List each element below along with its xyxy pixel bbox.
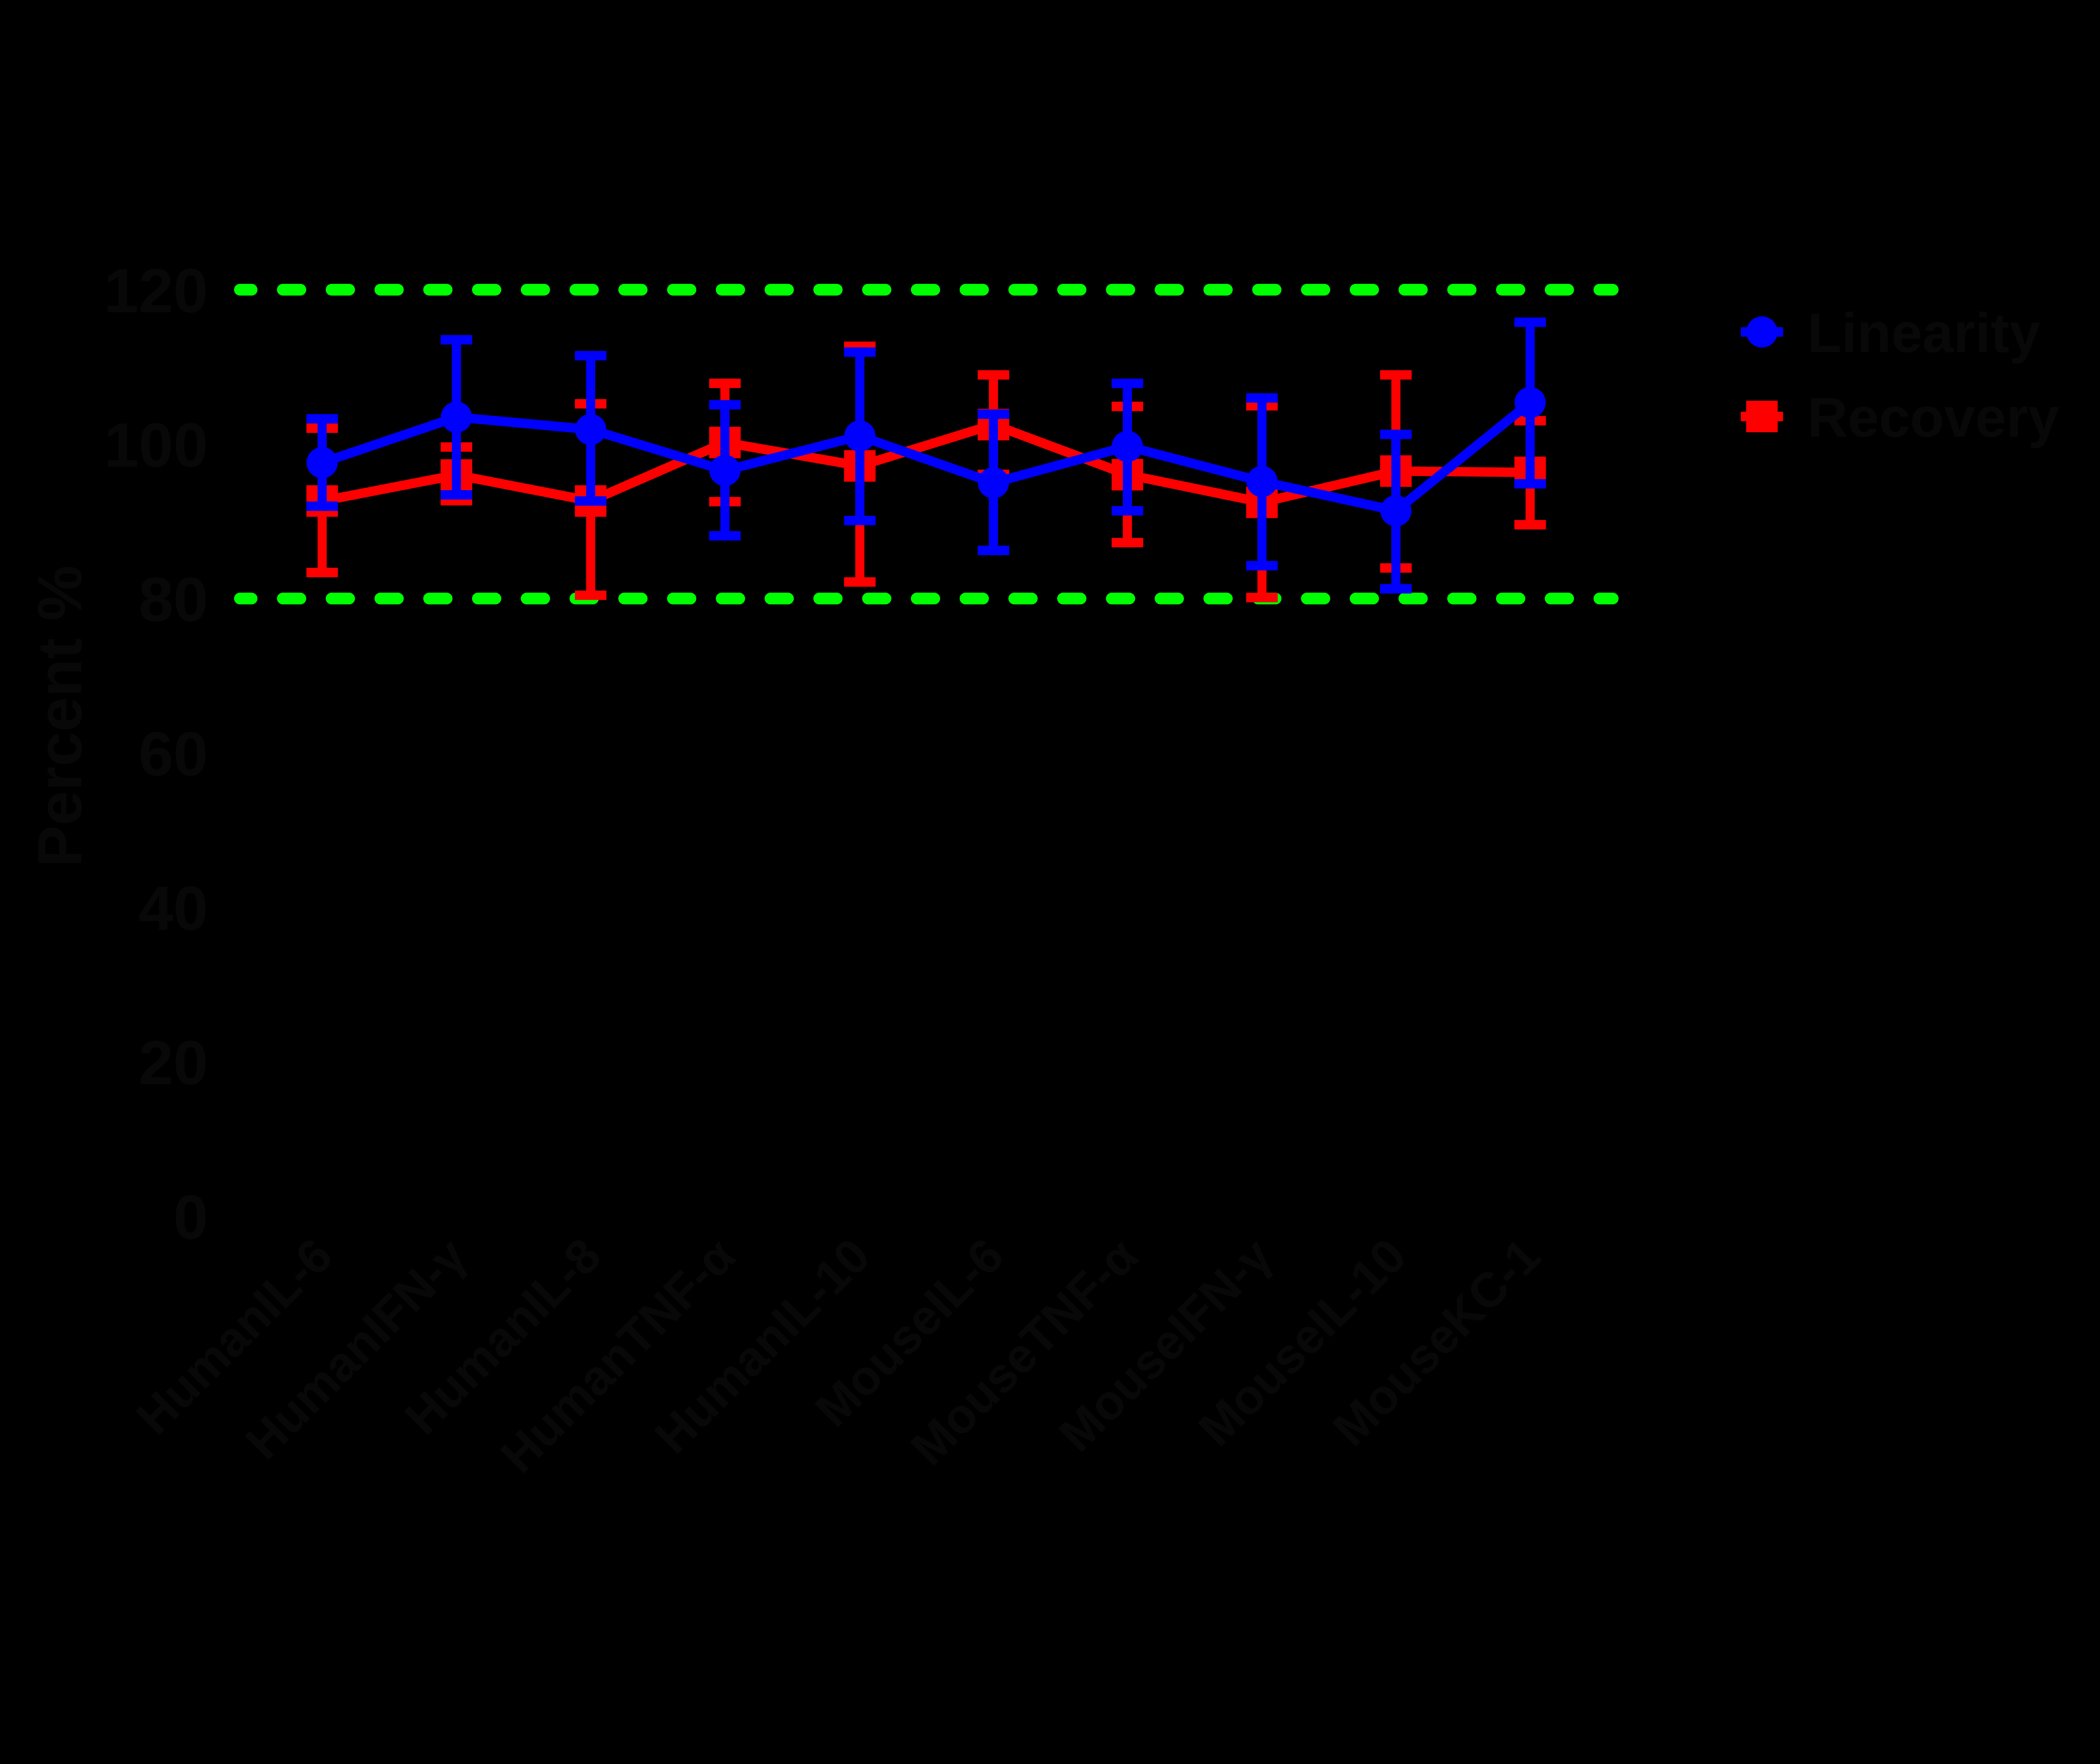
svg-text:120: 120: [104, 256, 208, 325]
svg-text:Linearity: Linearity: [1807, 302, 2040, 364]
svg-text:Percent %: Percent %: [25, 565, 94, 867]
svg-text:Recovery: Recovery: [1807, 386, 2059, 449]
svg-text:0: 0: [173, 1182, 208, 1252]
svg-text:20: 20: [139, 1028, 208, 1098]
svg-text:40: 40: [139, 874, 208, 943]
svg-text:80: 80: [139, 565, 208, 635]
svg-text:60: 60: [139, 719, 208, 789]
svg-text:100: 100: [104, 410, 208, 480]
